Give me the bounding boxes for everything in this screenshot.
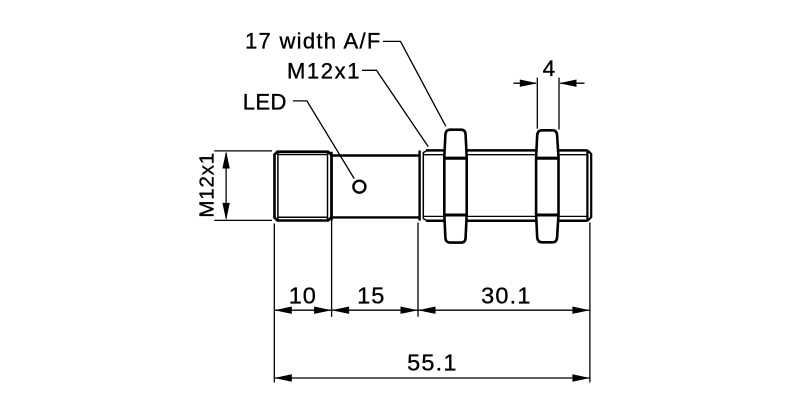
thread crest lines [426, 150, 588, 220]
thread section start face [418, 151, 420, 221]
sensor front cap outline [275, 152, 332, 221]
thread entry chamfer ring [423, 150, 427, 220]
svg-text:4: 4 [543, 56, 556, 81]
thread right end face [587, 150, 591, 220]
leader LED [293, 101, 354, 179]
body mid section [332, 152, 420, 221]
sensor front cap chamfer inner lines [278, 153, 328, 220]
svg-text:M12x1: M12x1 [196, 152, 219, 218]
thread root lines [423, 155, 587, 217]
svg-text:30.1: 30.1 [481, 283, 532, 309]
leader 17 width A/F [383, 41, 446, 126]
svg-text:10: 10 [289, 283, 317, 309]
leader M12x1 thread [362, 70, 428, 147]
svg-text:55.1: 55.1 [407, 350, 458, 376]
top dimension 4 [514, 78, 585, 130]
hex nut 2 [535, 130, 560, 242]
svg-text:17 width A/F: 17 width A/F [245, 29, 382, 54]
bottom extension lines [274, 220, 590, 383]
dimension row 10 / 15 / 30.1 [274, 309, 590, 311]
svg-text:15: 15 [357, 283, 385, 309]
hex nut 1 [443, 130, 468, 243]
LED indicator circle [353, 181, 365, 193]
svg-text:M12x1: M12x1 [287, 58, 361, 83]
svg-text:LED: LED [243, 90, 287, 115]
dimension 55.1 [274, 377, 590, 379]
left diameter dimension M12x1 [214, 151, 272, 221]
